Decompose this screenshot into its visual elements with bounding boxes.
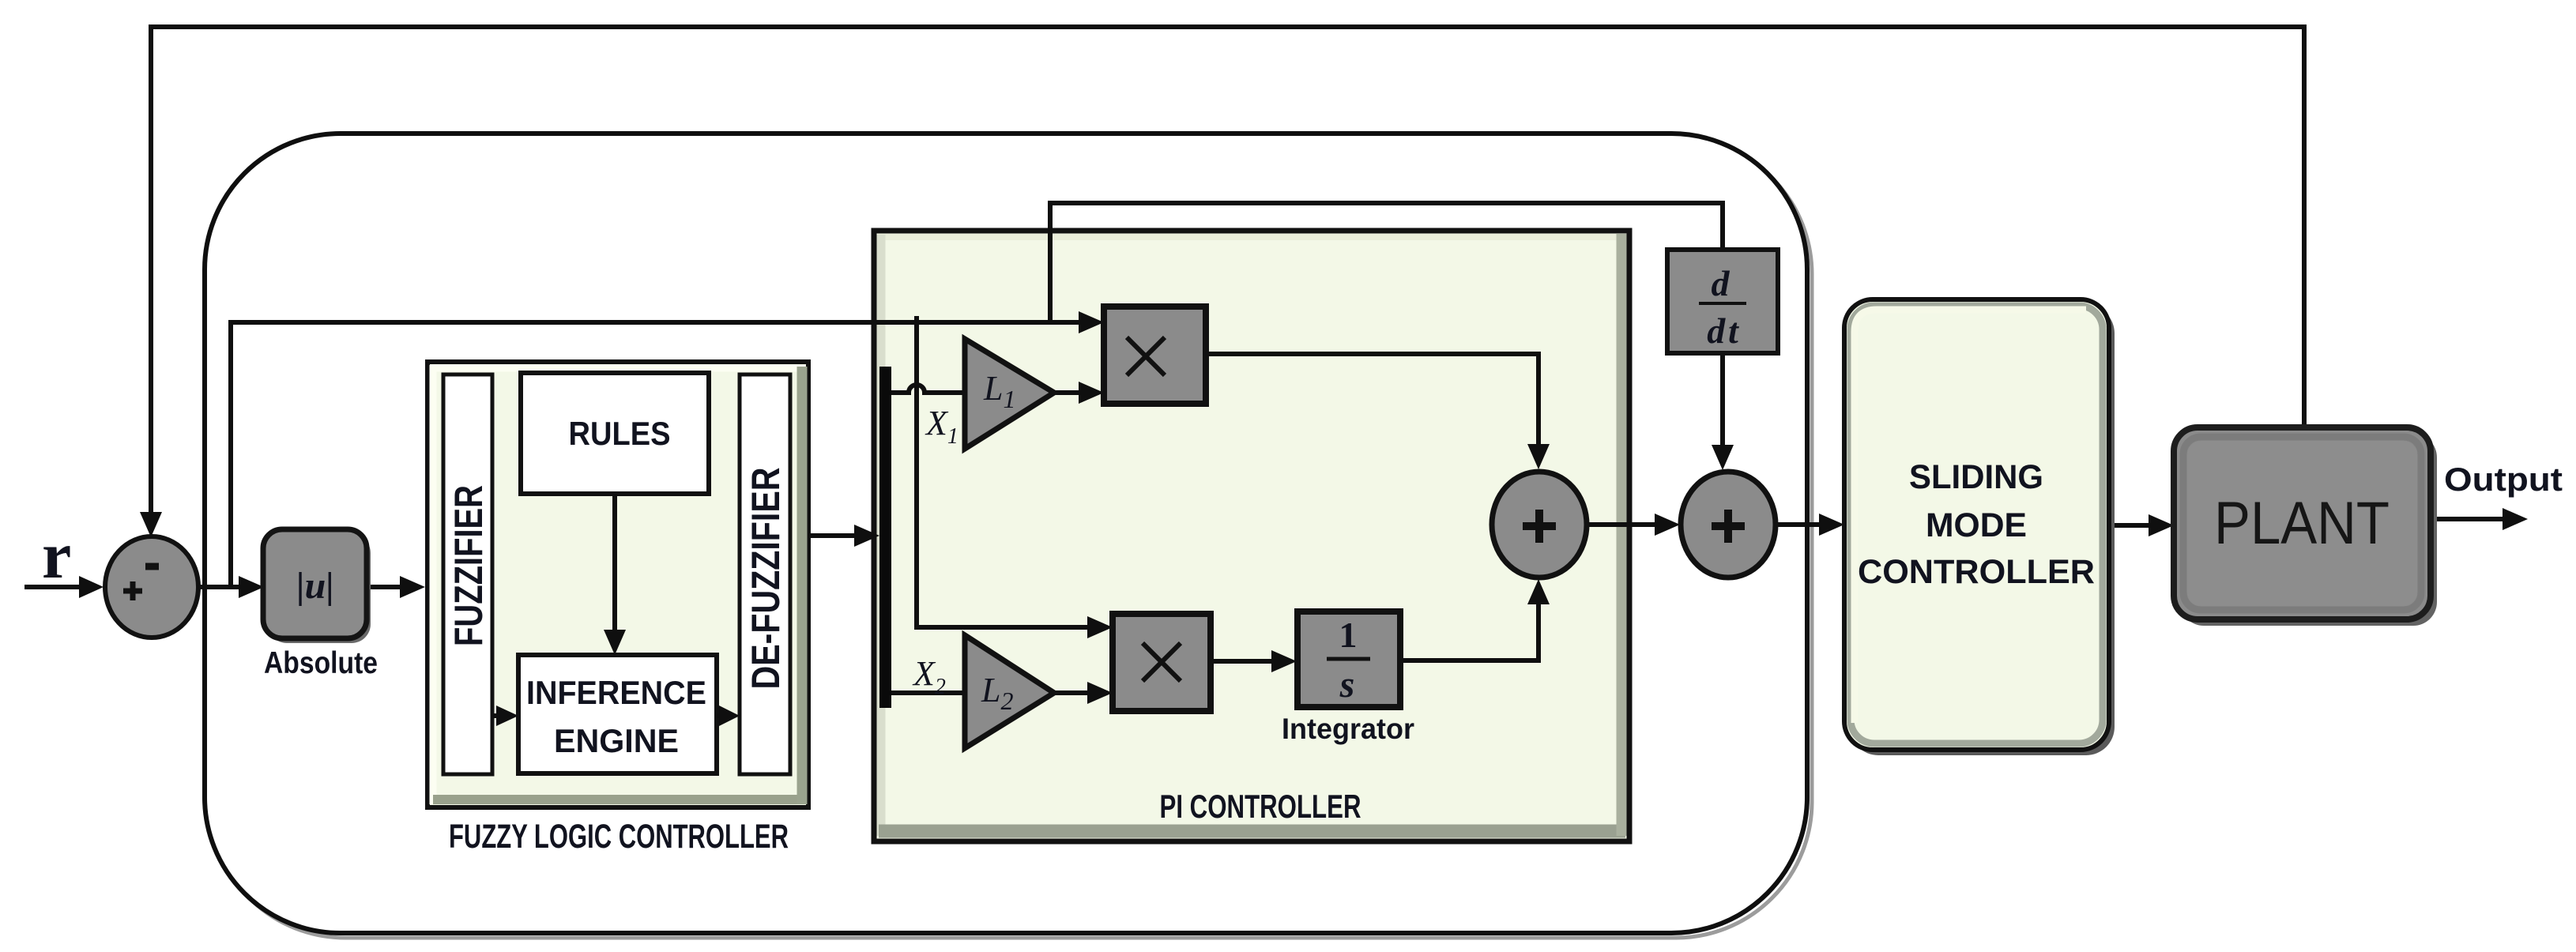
summing junction sum2 bbox=[1681, 472, 1776, 578]
FLC bevel dark right bbox=[797, 367, 808, 804]
PI controller box bbox=[874, 231, 1629, 841]
wire L1 to multiplier1 bbox=[1054, 390, 1079, 395]
FLC bevel light left bbox=[430, 365, 437, 804]
PI bevel light top bbox=[878, 234, 1625, 240]
plant box bbox=[2174, 427, 2431, 619]
wire outer feedback loop bbox=[151, 27, 2304, 512]
svg-text:SLIDING: SLIDING bbox=[1909, 458, 2043, 496]
derivative d/dt box bbox=[1667, 250, 1778, 353]
envelope rounded container shadow bbox=[209, 138, 1812, 938]
wire L2 to multiplier2 bbox=[1054, 690, 1087, 695]
wire defuzzifier to bar bbox=[808, 533, 854, 538]
gain L2 triangle bbox=[965, 635, 1054, 748]
wire multiplier1 to sum1 top bbox=[1206, 354, 1538, 444]
svg-text:r: r bbox=[42, 519, 71, 593]
wire integrator to sum1 bottom bbox=[1400, 604, 1538, 660]
PI bevel dark bottom bbox=[879, 825, 1625, 838]
svg-text:d: d bbox=[1712, 263, 1731, 303]
plant shadow bbox=[2180, 434, 2437, 626]
wire multiplier2 to integrator bbox=[1211, 659, 1271, 664]
wire branch down to x2 multiplier bbox=[917, 316, 1087, 627]
svg-text:PLANT: PLANT bbox=[2214, 490, 2390, 557]
svg-text:|u|: |u| bbox=[296, 565, 334, 607]
wire derivative to sum2 bbox=[1720, 353, 1725, 445]
absolute block bbox=[263, 529, 367, 638]
svg-text:1: 1 bbox=[1339, 615, 1358, 655]
node bus bar bbox=[879, 367, 891, 708]
wire sum1 to sum2 bbox=[1586, 522, 1655, 527]
svg-text:MODE: MODE bbox=[1926, 506, 2027, 544]
svg-text:Output: Output bbox=[2444, 461, 2563, 498]
integrator 1/s box bbox=[1297, 611, 1400, 707]
wire SMC to plant bbox=[2109, 523, 2149, 528]
svg-text:ENGINE: ENGINE bbox=[554, 722, 679, 759]
svg-text:INFERENCE: INFERENCE bbox=[526, 674, 706, 711]
rules box bbox=[521, 373, 709, 494]
svg-text:FUZZY LOGIC CONTROLLER: FUZZY LOGIC CONTROLLER bbox=[449, 818, 789, 856]
fuzzifier strip bbox=[443, 374, 492, 774]
PI bevel light left bbox=[877, 235, 886, 836]
summing junction input circle bbox=[105, 536, 198, 638]
fuzzy logic controller U2 outer box bbox=[427, 362, 808, 807]
multiplier product1 box bbox=[1104, 307, 1206, 404]
wire sum2 to SMC bbox=[1775, 522, 1819, 527]
summing junction sum1 bbox=[1492, 472, 1587, 578]
FLC bevel light top bbox=[431, 365, 805, 372]
absolute block shadow bbox=[268, 534, 371, 643]
wire fuzzifier to inference bbox=[492, 713, 496, 718]
wire bar to L1 with hop bbox=[891, 385, 965, 393]
svg-text:Absolute: Absolute bbox=[264, 646, 378, 680]
svg-text:Integrator: Integrator bbox=[1282, 713, 1414, 745]
multiplier product2 box bbox=[1113, 614, 1211, 711]
wire rules to inference bbox=[612, 494, 617, 630]
svg-text:s: s bbox=[1339, 664, 1355, 706]
wire error branch up and across bbox=[231, 322, 1079, 587]
wire absolute to fuzzifier bbox=[365, 585, 400, 589]
wire error to absolute bbox=[198, 585, 239, 589]
svg-text:CONTROLLER: CONTROLLER bbox=[1858, 553, 2095, 591]
envelope rounded container bbox=[205, 134, 1807, 933]
svg-text:d t: d t bbox=[1707, 310, 1739, 351]
inference engine box bbox=[518, 655, 717, 773]
svg-text:RULES: RULES bbox=[569, 415, 671, 452]
sliding mode controller box bbox=[1844, 299, 2109, 750]
PI bevel dark right bbox=[1617, 234, 1627, 836]
gain L1 triangle bbox=[965, 339, 1054, 449]
wire r input bbox=[24, 585, 79, 589]
svg-text:DE-FUZZIFIER: DE-FUZZIFIER bbox=[744, 468, 788, 690]
wire plant to output bbox=[2431, 517, 2503, 521]
wire bar to L2 bbox=[891, 690, 965, 695]
sliding mode controller shadow bbox=[1850, 305, 2115, 755]
svg-text:FUZZIFIER: FUZZIFIER bbox=[446, 485, 491, 646]
svg-text:PI CONTROLLER: PI CONTROLLER bbox=[1160, 788, 1361, 825]
wire feedback to derivative bbox=[1050, 203, 1723, 322]
FLC bevel dark bottom bbox=[433, 795, 806, 804]
defuzzifier strip bbox=[740, 374, 790, 774]
wire inference to defuzzifier bbox=[717, 713, 719, 718]
